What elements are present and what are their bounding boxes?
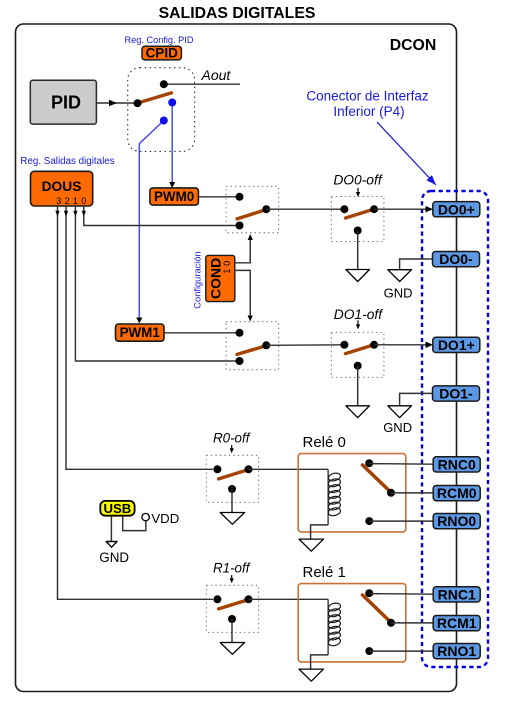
block PWM0 — [150, 188, 199, 205]
wire NC0 — [369, 463, 433, 466]
svg-text:Conector de Interfaz: Conector de Interfaz — [306, 89, 429, 104]
wire DO0-off to DO0+ — [374, 208, 428, 210]
wire NO1 — [369, 650, 433, 652]
block USB — [100, 501, 134, 516]
svg-text:0: 0 — [81, 196, 86, 206]
selector switch DO0 (dotted box) — [226, 186, 279, 232]
svg-text:RCM1: RCM1 — [437, 615, 477, 631]
svg-text:PWM1: PWM1 — [120, 325, 161, 340]
arrow DO1-off — [357, 320, 359, 325]
svg-text:RCM0: RCM0 — [437, 485, 477, 501]
terminal DO0- — [433, 251, 480, 267]
wire NO0 — [369, 520, 433, 522]
block PWM1 — [116, 324, 165, 341]
switch R1 (dotted box) — [206, 585, 258, 632]
switch DO0-off (dotted box) — [331, 197, 384, 242]
svg-text:R1-off: R1-off — [213, 561, 251, 576]
svg-text:DOUS: DOUS — [42, 179, 82, 194]
wire relay 1 coil to ground — [311, 655, 329, 669]
wire R0 switch to ground — [231, 489, 233, 513]
node PWM0 pole (blue) — [168, 99, 176, 107]
switch DO1-off (dotted box) — [331, 332, 384, 377]
svg-text:GND: GND — [383, 420, 412, 435]
ground DO1- — [388, 406, 412, 418]
wire NC1 — [369, 593, 433, 596]
wire Aout — [164, 83, 240, 85]
relay 1 contact lever — [363, 595, 389, 620]
node PWM1 pole (blue) — [160, 117, 168, 125]
svg-text:PID: PID — [51, 93, 81, 113]
blue wire to PWM0 — [171, 103, 173, 184]
wire DO1 selector to DO1-off switch — [266, 344, 344, 347]
relay 0 coil — [327, 469, 341, 525]
CPID switch dotted box — [128, 68, 195, 152]
annotation arrow to P4 box — [377, 122, 436, 185]
wire COND select DO0 switch — [235, 240, 251, 263]
wire DO1-off to DO1+ — [374, 344, 428, 346]
wire DOUS bit3 to R1 switch — [58, 206, 214, 599]
svg-text:CPID: CPID — [146, 46, 179, 61]
wire DOUS bit0 to DO0 switch — [84, 206, 236, 226]
arrow R0-off — [231, 445, 233, 450]
ground R0 switch — [220, 513, 244, 525]
terminal DO0+ — [433, 201, 480, 217]
svg-text:Relé 1: Relé 1 — [303, 564, 346, 581]
wire DO1 switch to ground — [357, 366, 359, 406]
terminal RNO1 — [433, 643, 480, 659]
wire R0 to relay coil — [249, 468, 329, 470]
relay 0 box — [298, 454, 406, 532]
relay 1 coil — [327, 599, 341, 655]
ground DO0 switch — [346, 270, 370, 282]
terminal RNC1 — [433, 587, 480, 603]
register CPID — [142, 46, 181, 61]
svg-text:Reg. Salidas digitales: Reg. Salidas digitales — [20, 156, 114, 167]
wire COND select DO1 switch — [235, 270, 251, 316]
ground relay 1 — [299, 669, 324, 681]
svg-text:3: 3 — [56, 196, 61, 206]
svg-text:USB: USB — [103, 501, 131, 516]
wire CM0 — [391, 492, 433, 494]
svg-text:GND: GND — [99, 550, 129, 565]
svg-text:DO1-: DO1- — [439, 386, 473, 402]
VDD pin circle — [142, 513, 149, 520]
relay 0 contact lever — [363, 465, 389, 490]
wire CM1 — [391, 622, 433, 624]
relay 1 contact nodes — [365, 589, 373, 597]
svg-text:PWM0: PWM0 — [154, 189, 194, 204]
ground R1 switch — [220, 643, 244, 655]
wire DO0 selector to DO0-off switch — [266, 208, 344, 210]
switch R0 (dotted box) — [206, 455, 258, 502]
ground DO1 switch — [346, 406, 370, 418]
connector P4 dashed box — [422, 191, 488, 667]
wire relay 0 coil to ground — [311, 525, 329, 539]
register DOUS — [31, 171, 93, 206]
wire DOUS bit1 to DO1 switch — [75, 206, 236, 361]
svg-text:DO1-off: DO1-off — [334, 307, 384, 322]
wire R1 to relay coil — [249, 598, 329, 600]
wire DO0 switch to ground — [357, 231, 359, 270]
svg-text:1: 1 — [73, 196, 78, 206]
PID block — [30, 80, 96, 124]
node PID input pole — [134, 99, 142, 107]
svg-text:Relé 0: Relé 0 — [303, 434, 346, 451]
blue wire to PWM1 — [139, 121, 164, 319]
wire PWM0 to switch — [198, 196, 237, 198]
terminal RCM1 — [433, 615, 480, 631]
relay 1 box — [298, 584, 406, 662]
svg-text:VDD: VDD — [151, 511, 179, 526]
ground DO0- — [388, 270, 412, 282]
relay 0 contact nodes — [365, 459, 373, 467]
selector switch DO1 (dotted box) — [226, 322, 279, 370]
svg-text:1 0: 1 0 — [221, 261, 232, 274]
wire USB to VDD pin — [123, 516, 146, 531]
wire DO1- to ground — [400, 393, 433, 405]
svg-text:RNO0: RNO0 — [437, 513, 476, 529]
svg-text:2: 2 — [65, 196, 70, 206]
arrow R1-off — [231, 575, 233, 580]
wire DO0- to ground — [400, 259, 433, 270]
arrow DO0-off — [357, 188, 359, 193]
wire PWM1 to switch — [164, 332, 237, 334]
ground relay 0 — [299, 539, 324, 551]
svg-text:RNO1: RNO1 — [437, 643, 476, 659]
register COND — [206, 255, 235, 301]
terminal RCM0 — [433, 485, 480, 501]
terminal RNO0 — [433, 513, 480, 529]
svg-text:GND: GND — [384, 285, 413, 300]
wire USB to ground — [110, 516, 112, 542]
svg-text:Inferior (P4): Inferior (P4) — [333, 104, 404, 119]
svg-text:DO0-: DO0- — [439, 251, 473, 267]
svg-text:Configuración: Configuración — [193, 251, 203, 308]
label Conector de Interfaz Inferior (P4) — [306, 89, 429, 120]
svg-text:Reg. Config. PID: Reg. Config. PID — [125, 35, 194, 45]
ground USB (arrow) — [106, 542, 117, 548]
wire R1 switch to ground — [231, 619, 233, 643]
svg-text:DO1+: DO1+ — [438, 337, 475, 353]
terminal RNC0 — [433, 457, 480, 473]
svg-text:R0-off: R0-off — [213, 431, 251, 446]
svg-text:DO0-off: DO0-off — [333, 173, 383, 188]
CPID switch lever — [139, 93, 171, 103]
svg-text:DCON: DCON — [390, 37, 437, 54]
svg-text:RNC0: RNC0 — [438, 457, 476, 473]
wire PID to switch — [97, 102, 138, 104]
svg-text:Aout: Aout — [201, 67, 232, 83]
terminal DO1+ — [433, 337, 480, 353]
arrowhead on PID wire — [109, 100, 117, 106]
wire DOUS bit2 to R0 switch — [66, 206, 213, 469]
svg-text:SALIDAS DIGITALES: SALIDAS DIGITALES — [159, 5, 316, 22]
svg-text:RNC1: RNC1 — [438, 587, 476, 603]
terminal DO1- — [433, 386, 480, 402]
svg-text:DO0+: DO0+ — [438, 201, 475, 217]
node Aout pole — [160, 80, 168, 88]
